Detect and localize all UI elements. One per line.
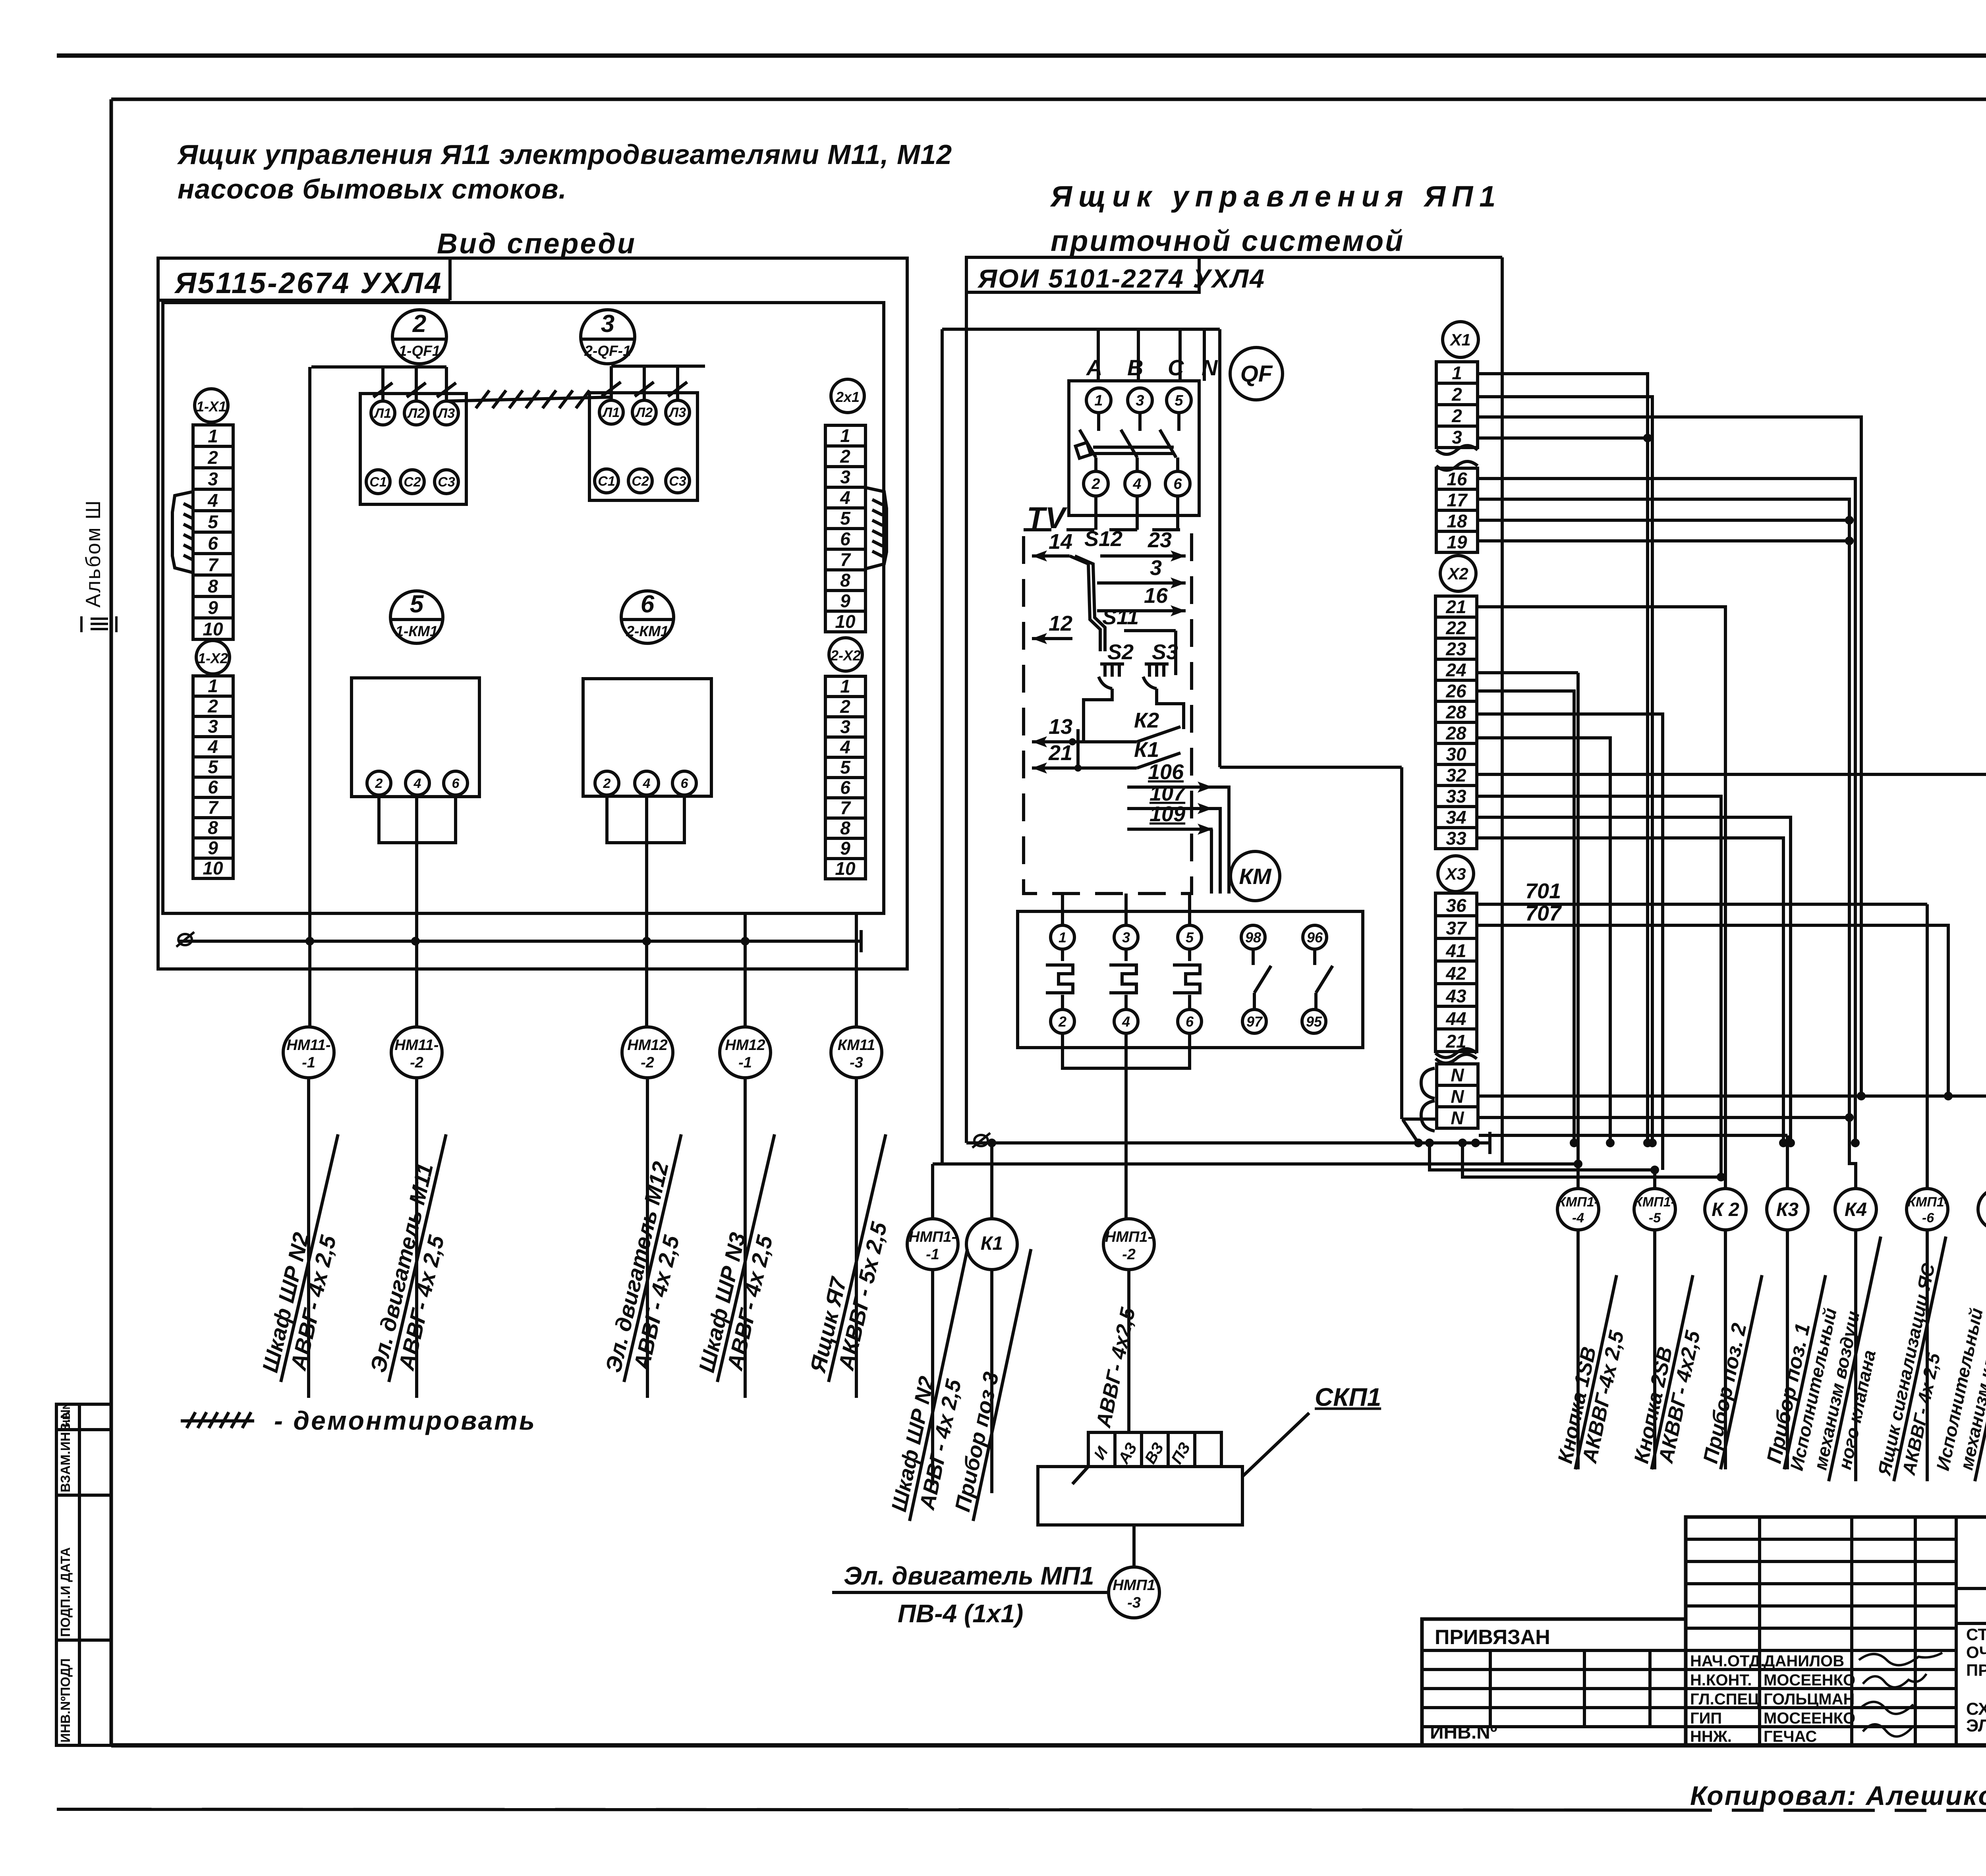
- svg-text:ИНВ.Nº: ИНВ.Nº: [1430, 1722, 1497, 1743]
- svg-text:97: 97: [1246, 1013, 1263, 1030]
- svg-text:4: 4: [207, 490, 218, 511]
- svg-text:НМП1-: НМП1-: [1105, 1229, 1153, 1245]
- svg-text:2: 2: [1451, 384, 1462, 405]
- svg-text:2-QF-1: 2-QF-1: [584, 343, 631, 359]
- svg-text:7: 7: [208, 797, 219, 818]
- svg-text:НМ12: НМ12: [627, 1037, 667, 1054]
- svg-text:32: 32: [1446, 765, 1466, 786]
- svg-text:701: 701: [1525, 879, 1561, 903]
- svg-text:16: 16: [1144, 584, 1168, 608]
- svg-text:2: 2: [375, 776, 383, 791]
- svg-text:ННЖ.: ННЖ.: [1690, 1728, 1732, 1745]
- svg-text:QF: QF: [1240, 361, 1273, 387]
- svg-text:-3: -3: [850, 1054, 863, 1071]
- svg-text:2: 2: [207, 447, 218, 468]
- svg-text:36: 36: [1446, 895, 1466, 916]
- svg-text:КМ: КМ: [1239, 864, 1271, 889]
- svg-text:2: 2: [412, 310, 426, 338]
- svg-text:4: 4: [643, 776, 651, 791]
- svg-text:Л1: Л1: [602, 405, 620, 420]
- svg-text:С2: С2: [632, 474, 649, 489]
- svg-text:S3: S3: [1152, 640, 1178, 664]
- svg-text:1: 1: [1452, 363, 1462, 383]
- svg-text:5: 5: [1186, 929, 1194, 946]
- svg-text:13: 13: [1049, 715, 1072, 739]
- svg-text:Л3: Л3: [668, 405, 686, 420]
- svg-text:95: 95: [1306, 1013, 1322, 1030]
- svg-text:4: 4: [1122, 1013, 1130, 1030]
- svg-text:106: 106: [1148, 760, 1184, 784]
- svg-text:6: 6: [641, 591, 655, 618]
- svg-text:2: 2: [603, 776, 611, 791]
- svg-text:S12: S12: [1084, 527, 1122, 551]
- svg-text:НМП1: НМП1: [1113, 1577, 1155, 1594]
- svg-text:6: 6: [840, 777, 850, 798]
- svg-text:6: 6: [681, 776, 689, 791]
- svg-text:насосов бытовых стоков.: насосов бытовых стоков.: [178, 174, 567, 205]
- svg-text:21: 21: [1048, 741, 1072, 765]
- svg-text:43: 43: [1445, 986, 1466, 1006]
- svg-text:МОСЕЕНКО: МОСЕЕНКО: [1764, 1671, 1855, 1689]
- svg-text:2: 2: [840, 696, 850, 717]
- svg-text:7: 7: [840, 797, 851, 818]
- svg-text:-2: -2: [641, 1054, 654, 1071]
- svg-text:9: 9: [840, 838, 850, 859]
- svg-text:Н.КОНТ.: Н.КОНТ.: [1690, 1671, 1752, 1689]
- svg-text:3: 3: [1150, 556, 1162, 580]
- svg-text:1-Х1: 1-Х1: [196, 398, 226, 415]
- svg-text:6: 6: [452, 776, 460, 791]
- svg-text:2: 2: [1058, 1013, 1066, 1030]
- svg-text:44: 44: [1445, 1008, 1466, 1029]
- svg-text:Я5115-2674 УХЛ4: Я5115-2674 УХЛ4: [174, 266, 442, 299]
- svg-text:КМ11: КМ11: [838, 1037, 875, 1054]
- svg-text:7: 7: [840, 549, 851, 570]
- svg-text:5: 5: [208, 757, 218, 777]
- svg-text:СТАНЦИЯ БИОЛОГИЧЕСКОЙ: СТАНЦИЯ БИОЛОГИЧЕСКОЙ: [1966, 1625, 1986, 1644]
- svg-text:НМ11-: НМ11-: [286, 1037, 330, 1054]
- svg-text:Ящик управления ЯП1: Ящик управления ЯП1: [1050, 180, 1502, 213]
- svg-text:ПОДП.И ДАТА: ПОДП.И ДАТА: [58, 1547, 73, 1637]
- svg-text:ПРОИЗВОДИТЕЛЬНОСТЬЮ: ПРОИЗВОДИТЕЛЬНОСТЬЮ: [1966, 1661, 1986, 1679]
- svg-text:приточной системой: приточной системой: [1051, 224, 1404, 257]
- svg-text:-3: -3: [1127, 1594, 1141, 1611]
- svg-text:С3: С3: [669, 474, 686, 489]
- svg-text:98: 98: [1245, 929, 1261, 946]
- svg-text:К 2: К 2: [1712, 1199, 1739, 1220]
- svg-text:Х1: Х1: [1449, 330, 1470, 349]
- svg-text:1-Х2: 1-Х2: [198, 650, 228, 666]
- svg-text:6: 6: [1186, 1013, 1194, 1030]
- svg-text:4: 4: [840, 737, 850, 757]
- svg-text:1: 1: [208, 426, 218, 446]
- svg-text:14: 14: [1049, 530, 1072, 554]
- svg-text:Л3: Л3: [437, 406, 455, 421]
- svg-text:КМП1-: КМП1-: [1557, 1195, 1599, 1210]
- svg-text:-2: -2: [410, 1054, 423, 1071]
- svg-text:НВ.N: НВ.N: [60, 1402, 72, 1427]
- svg-text:ГЛ.СПЕЦ: ГЛ.СПЕЦ: [1690, 1691, 1759, 1708]
- svg-text:3: 3: [840, 716, 850, 737]
- svg-text:3: 3: [208, 469, 218, 489]
- svg-text:Вид спереди: Вид спереди: [437, 228, 636, 260]
- svg-text:С: С: [1168, 355, 1184, 380]
- svg-text:5: 5: [840, 757, 851, 778]
- svg-text:2-Х2: 2-Х2: [830, 647, 861, 664]
- svg-text:18: 18: [1447, 511, 1467, 531]
- svg-text:24: 24: [1445, 660, 1466, 680]
- svg-text:8: 8: [840, 570, 850, 591]
- svg-text:17: 17: [1447, 490, 1468, 510]
- svg-text:ИНВ.NºПОДЛ: ИНВ.NºПОДЛ: [58, 1658, 73, 1743]
- svg-text:4: 4: [1132, 476, 1141, 492]
- svg-text:1-QF1: 1-QF1: [399, 343, 440, 359]
- svg-text:Альбом Ш: Альбом Ш: [82, 499, 105, 608]
- svg-text:10: 10: [835, 858, 856, 879]
- svg-text:3: 3: [1452, 427, 1462, 448]
- svg-text:В: В: [1127, 355, 1143, 380]
- svg-text:3: 3: [1136, 392, 1144, 409]
- svg-text:ПРИВЯЗАН: ПРИВЯЗАН: [1435, 1626, 1550, 1649]
- svg-text:Х2: Х2: [1447, 564, 1468, 583]
- svg-text:6: 6: [208, 777, 218, 797]
- svg-text:23: 23: [1445, 639, 1466, 659]
- svg-text:2: 2: [1451, 405, 1462, 426]
- svg-text:ЭЛЕКТРООБОРУДОВАНИЯ: ЭЛЕКТРООБОРУДОВАНИЯ: [1966, 1716, 1986, 1735]
- svg-text:28: 28: [1445, 723, 1466, 743]
- svg-text:3: 3: [208, 716, 218, 737]
- svg-text:10: 10: [203, 858, 223, 878]
- svg-text:КМП1-: КМП1-: [1907, 1195, 1949, 1210]
- svg-text:8: 8: [208, 817, 218, 838]
- svg-text:6: 6: [840, 529, 850, 549]
- svg-text:Л2: Л2: [407, 406, 425, 421]
- svg-text:109: 109: [1149, 802, 1185, 826]
- svg-text:НМП1-: НМП1-: [909, 1229, 956, 1245]
- svg-text:9: 9: [208, 597, 218, 618]
- svg-text:1: 1: [1094, 392, 1103, 409]
- svg-text:6: 6: [1173, 476, 1182, 492]
- svg-text:9: 9: [208, 838, 218, 858]
- svg-text:S11: S11: [1102, 605, 1139, 629]
- svg-text:С3: С3: [438, 475, 455, 490]
- svg-text:С1: С1: [598, 474, 615, 489]
- svg-text:16: 16: [1447, 469, 1467, 489]
- svg-text:S2: S2: [1107, 640, 1134, 664]
- svg-text:5: 5: [1175, 392, 1183, 409]
- svg-text:2: 2: [1091, 476, 1100, 492]
- svg-text:N: N: [1202, 355, 1218, 380]
- svg-text:8: 8: [840, 818, 850, 838]
- svg-text:26: 26: [1445, 681, 1466, 701]
- svg-text:НАЧ.ОТД.: НАЧ.ОТД.: [1690, 1652, 1765, 1670]
- svg-text:107: 107: [1149, 782, 1186, 805]
- svg-text:42: 42: [1445, 963, 1466, 984]
- svg-text:К1: К1: [981, 1233, 1003, 1254]
- svg-text:N: N: [1451, 1065, 1464, 1085]
- svg-text:33: 33: [1446, 786, 1466, 807]
- svg-text:23: 23: [1148, 528, 1172, 552]
- svg-text:41: 41: [1445, 940, 1466, 961]
- svg-text:1: 1: [840, 425, 850, 446]
- svg-text:3: 3: [601, 310, 614, 338]
- svg-text:9: 9: [840, 591, 850, 611]
- svg-text:1-КМ1: 1-КМ1: [395, 623, 438, 639]
- svg-text:-4: -4: [1572, 1210, 1584, 1226]
- svg-text:А: А: [1086, 355, 1102, 380]
- svg-text:Копировал: Алешикова: Копировал: Алешикова: [1690, 1781, 1986, 1811]
- svg-text:5: 5: [410, 591, 424, 618]
- svg-text:5: 5: [208, 511, 218, 532]
- svg-text:96: 96: [1307, 929, 1323, 946]
- svg-text:-1: -1: [738, 1054, 752, 1071]
- svg-text:С2: С2: [404, 475, 421, 490]
- svg-text:ГОЛЬЦМАН: ГОЛЬЦМАН: [1764, 1691, 1855, 1708]
- svg-text:ДАНИЛОВ: ДАНИЛОВ: [1764, 1652, 1844, 1670]
- svg-text:ПВ-4 (1х1): ПВ-4 (1х1): [898, 1599, 1023, 1628]
- svg-text:10: 10: [835, 611, 856, 632]
- svg-text:-6: -6: [1922, 1210, 1934, 1226]
- svg-text:-2: -2: [1122, 1246, 1136, 1263]
- svg-text:ГИП: ГИП: [1690, 1710, 1722, 1727]
- svg-text:N: N: [1451, 1108, 1464, 1128]
- svg-text:К2: К2: [1134, 708, 1159, 732]
- svg-text:5: 5: [840, 508, 851, 529]
- svg-text:2: 2: [207, 696, 218, 716]
- svg-text:22: 22: [1445, 618, 1466, 638]
- svg-text:34: 34: [1446, 807, 1466, 828]
- svg-text:К3: К3: [1776, 1199, 1799, 1220]
- svg-text:1: 1: [208, 676, 218, 696]
- svg-text:N: N: [1451, 1086, 1464, 1107]
- svg-text:30: 30: [1446, 744, 1466, 764]
- svg-text:К1: К1: [1134, 738, 1159, 762]
- svg-text:ОЧИСТКИ СТОЧНЫХ ВОД: ОЧИСТКИ СТОЧНЫХ ВОД: [1966, 1643, 1986, 1662]
- svg-text:37: 37: [1446, 918, 1467, 938]
- svg-text:28: 28: [1445, 702, 1466, 722]
- svg-text:- демонтировать: - демонтировать: [274, 1406, 536, 1435]
- svg-text:Л2: Л2: [635, 405, 653, 420]
- svg-text:2-КМ1: 2-КМ1: [626, 623, 668, 639]
- svg-text:1: 1: [1059, 929, 1066, 946]
- svg-text:Ящик управления Я11 электро: Ящик управления Я11 электродвигателями М…: [177, 139, 952, 170]
- svg-text:НМ12: НМ12: [725, 1037, 765, 1054]
- svg-text:ГЕЧАС: ГЕЧАС: [1764, 1728, 1817, 1745]
- svg-text:Х3: Х3: [1445, 865, 1466, 883]
- svg-text:10: 10: [203, 619, 223, 639]
- svg-text:2: 2: [840, 446, 850, 467]
- svg-text:МОСЕЕНКО: МОСЕЕНКО: [1764, 1710, 1855, 1727]
- svg-text:7: 7: [208, 554, 219, 575]
- svg-text:3: 3: [1122, 929, 1130, 946]
- svg-text:4: 4: [207, 736, 218, 757]
- svg-text:8: 8: [208, 576, 218, 596]
- svg-text:6: 6: [208, 533, 218, 554]
- svg-text:КМП1-: КМП1-: [1634, 1195, 1675, 1210]
- svg-text:1: 1: [840, 676, 850, 697]
- svg-text:С1: С1: [369, 475, 386, 490]
- svg-text:-1: -1: [302, 1054, 315, 1071]
- svg-text:12: 12: [1049, 612, 1072, 635]
- svg-text:19: 19: [1447, 532, 1467, 552]
- svg-text:СКП1: СКП1: [1315, 1383, 1381, 1411]
- svg-text:3: 3: [840, 467, 850, 487]
- svg-text:ЯОИ 5101-2274 УХЛ4: ЯОИ 5101-2274 УХЛ4: [977, 264, 1265, 293]
- svg-text:2х1: 2х1: [835, 389, 860, 405]
- svg-text:-5: -5: [1649, 1210, 1661, 1226]
- svg-text:НМ11-: НМ11-: [394, 1037, 439, 1054]
- svg-text:21: 21: [1445, 596, 1466, 617]
- svg-text:4: 4: [413, 776, 421, 791]
- svg-text:К4: К4: [1845, 1199, 1867, 1220]
- svg-text:Л1: Л1: [373, 406, 391, 421]
- svg-text:-1: -1: [926, 1246, 939, 1263]
- svg-text:Эл. двигатель МП1: Эл. двигатель МП1: [844, 1561, 1094, 1590]
- svg-text:4: 4: [840, 487, 850, 508]
- svg-text:33: 33: [1446, 828, 1466, 849]
